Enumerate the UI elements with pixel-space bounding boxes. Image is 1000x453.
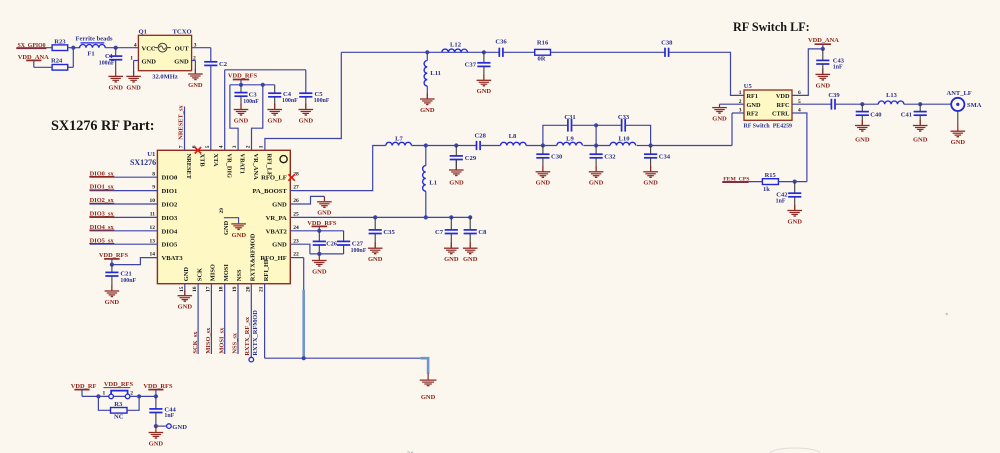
svg-text:VDD_RFS: VDD_RFS <box>104 381 134 388</box>
svg-text:4: 4 <box>134 42 137 48</box>
svg-text:13: 13 <box>150 238 156 244</box>
svg-text:1k: 1k <box>763 186 770 193</box>
svg-text:VBAT2: VBAT2 <box>266 228 288 235</box>
svg-text:GND: GND <box>477 88 492 95</box>
svg-text:1nF: 1nF <box>164 413 174 419</box>
svg-text:GND: GND <box>421 394 436 401</box>
svg-text:RXTX_RFMOD: RXTX_RFMOD <box>252 310 259 356</box>
svg-text:C34: C34 <box>659 154 671 161</box>
svg-text:NC: NC <box>114 414 124 421</box>
svg-text:C33: C33 <box>618 114 630 121</box>
svg-text:2: 2 <box>130 390 133 396</box>
svg-text:R23: R23 <box>54 38 66 45</box>
svg-text:GND: GND <box>126 84 141 91</box>
svg-text:C32: C32 <box>604 154 616 161</box>
svg-text:RFI_HF: RFI_HF <box>263 258 270 281</box>
svg-text:RFO_LF: RFO_LF <box>261 175 287 182</box>
svg-text:1: 1 <box>103 390 106 396</box>
svg-text:GND: GND <box>272 242 287 249</box>
svg-text:ANT_LF: ANT_LF <box>947 90 972 97</box>
svg-text:C38: C38 <box>661 39 673 46</box>
svg-text:L12: L12 <box>450 41 462 48</box>
svg-text:1: 1 <box>259 145 265 148</box>
svg-text:VR_DIG: VR_DIG <box>225 154 232 179</box>
svg-text:R15: R15 <box>765 172 777 179</box>
svg-text:16: 16 <box>192 286 198 292</box>
svg-text:GND: GND <box>142 58 157 65</box>
svg-text:GND: GND <box>149 440 164 447</box>
svg-text:100nF: 100nF <box>314 98 330 104</box>
svg-text:14: 14 <box>150 252 156 258</box>
svg-text:5: 5 <box>205 145 211 148</box>
svg-text:GND: GND <box>368 256 383 263</box>
svg-text:100nF: 100nF <box>120 278 136 284</box>
svg-text:21: 21 <box>259 286 265 292</box>
svg-text:NRESET: NRESET <box>185 154 192 180</box>
svg-text:PE4259: PE4259 <box>773 123 792 129</box>
svg-text:0R: 0R <box>538 56 546 63</box>
svg-text:17: 17 <box>205 286 211 292</box>
svg-text:VDD_ANA: VDD_ANA <box>808 37 839 44</box>
svg-text:MISO_sx: MISO_sx <box>205 327 212 354</box>
svg-text:MOSI: MOSI <box>223 264 230 282</box>
svg-text:12: 12 <box>150 225 156 231</box>
svg-text:VDD: VDD <box>776 93 790 100</box>
svg-text:GND: GND <box>232 232 247 239</box>
svg-text:GND: GND <box>183 267 190 282</box>
svg-text:2: 2 <box>193 55 196 61</box>
svg-text:4: 4 <box>219 145 225 148</box>
svg-text:NSS_sx: NSS_sx <box>232 332 239 353</box>
svg-text:23: 23 <box>293 238 299 244</box>
svg-text:GND: GND <box>188 82 203 89</box>
svg-text:L9: L9 <box>566 135 574 142</box>
svg-text:L1: L1 <box>429 179 437 186</box>
svg-text:DIO0: DIO0 <box>162 175 178 182</box>
svg-text:C39: C39 <box>828 92 840 99</box>
svg-text:GND: GND <box>712 116 727 123</box>
svg-text:1nF: 1nF <box>833 65 843 71</box>
svg-text:GND: GND <box>272 202 287 209</box>
svg-text:C1: C1 <box>105 53 113 60</box>
svg-text:DIO2: DIO2 <box>162 202 178 209</box>
svg-text:SCK: SCK <box>196 268 203 281</box>
svg-text:GND: GND <box>223 220 230 235</box>
svg-text:C28: C28 <box>475 133 487 140</box>
svg-text:DIO5: DIO5 <box>162 242 178 249</box>
svg-text:SMA: SMA <box>967 102 982 109</box>
svg-text:GND: GND <box>589 180 604 187</box>
svg-text:GND: GND <box>449 180 464 187</box>
svg-text:NRESET_sx: NRESET_sx <box>178 105 185 140</box>
svg-text:8: 8 <box>152 171 155 177</box>
svg-text:GND: GND <box>787 218 802 225</box>
svg-text:C7: C7 <box>435 229 444 236</box>
svg-text:VDD_RFS: VDD_RFS <box>228 73 258 80</box>
svg-text:GND: GND <box>816 82 831 89</box>
svg-text:RF Switch: RF Switch <box>744 123 771 129</box>
svg-text:25: 25 <box>293 212 299 218</box>
svg-text:15: 15 <box>179 286 185 292</box>
svg-text:GND: GND <box>174 58 189 65</box>
svg-text:C31: C31 <box>564 114 575 121</box>
svg-text:32.0MHz: 32.0MHz <box>152 74 178 81</box>
svg-text:C3: C3 <box>249 92 258 99</box>
svg-text:7: 7 <box>178 145 184 148</box>
svg-text:U5: U5 <box>744 83 753 90</box>
svg-text:RF2: RF2 <box>747 111 759 118</box>
svg-text:U1: U1 <box>147 151 155 158</box>
svg-text:C42: C42 <box>776 192 787 199</box>
svg-text:MISO: MISO <box>210 264 217 281</box>
svg-text:RFC: RFC <box>777 102 790 109</box>
svg-text:2: 2 <box>245 145 251 148</box>
svg-text:F1: F1 <box>87 50 94 57</box>
svg-text:XTA: XTA <box>212 154 219 167</box>
svg-text:XTB: XTB <box>199 154 206 168</box>
svg-text:100nF: 100nF <box>243 99 259 105</box>
svg-text:GND: GND <box>951 139 966 146</box>
svg-text:GND: GND <box>108 84 123 91</box>
svg-text:SCK_sx: SCK_sx <box>192 331 199 354</box>
svg-text:L13: L13 <box>886 92 898 99</box>
svg-text:L7: L7 <box>395 136 403 143</box>
svg-text:C36: C36 <box>495 39 507 46</box>
svg-text:R3: R3 <box>114 401 123 408</box>
svg-text:NSS: NSS <box>236 269 243 281</box>
svg-text:GND: GND <box>913 137 928 144</box>
svg-text:22: 22 <box>293 252 299 258</box>
svg-text:OUT: OUT <box>175 45 190 52</box>
svg-text:C21: C21 <box>120 271 131 278</box>
svg-text:20: 20 <box>245 286 251 292</box>
svg-text:R24: R24 <box>51 58 63 65</box>
svg-text:GND: GND <box>267 117 282 124</box>
svg-text:26: 26 <box>293 198 299 204</box>
svg-text:100nF: 100nF <box>282 98 298 104</box>
svg-text:9: 9 <box>152 185 155 191</box>
svg-text:11: 11 <box>150 212 155 218</box>
svg-text:GND: GND <box>317 209 332 216</box>
svg-text:GND: GND <box>312 268 327 275</box>
svg-text:C27: C27 <box>352 240 364 247</box>
svg-text:Ferrite beads: Ferrite beads <box>75 36 112 43</box>
svg-text:VCC: VCC <box>142 45 156 52</box>
svg-text:L11: L11 <box>430 70 441 77</box>
svg-text:27: 27 <box>293 185 299 191</box>
svg-text:DIO1: DIO1 <box>162 188 178 195</box>
svg-text:1nF: 1nF <box>776 199 786 205</box>
svg-text:18: 18 <box>219 286 225 292</box>
svg-text:GND: GND <box>299 117 314 124</box>
svg-text:RF Switch LF:: RF Switch LF: <box>733 20 810 34</box>
svg-text:L8: L8 <box>509 133 517 140</box>
svg-text:100nF: 100nF <box>99 60 115 66</box>
svg-text:C26: C26 <box>326 240 337 247</box>
svg-text:C43: C43 <box>833 57 845 64</box>
svg-text:DIO3: DIO3 <box>162 215 178 222</box>
svg-text:GND: GND <box>463 256 478 263</box>
svg-text:C40: C40 <box>870 111 881 118</box>
svg-text:MOSI_sx: MOSI_sx <box>218 327 225 354</box>
svg-text:VBAT1: VBAT1 <box>239 154 246 174</box>
svg-text:TCXO: TCXO <box>173 29 192 36</box>
svg-text:C8: C8 <box>478 229 487 236</box>
svg-text:3: 3 <box>232 145 238 148</box>
svg-text:100nF: 100nF <box>351 248 367 254</box>
svg-text:PA_BOOST: PA_BOOST <box>252 188 287 195</box>
svg-text:VBAT3: VBAT3 <box>162 255 184 262</box>
svg-text:1: 1 <box>130 55 133 61</box>
svg-text:RXTX&RFMOD: RXTX&RFMOD <box>250 233 257 281</box>
svg-text:GND: GND <box>105 299 120 306</box>
svg-text:GND: GND <box>536 180 551 187</box>
svg-text:RXTX_RF_sx: RXTX_RF_sx <box>244 316 251 356</box>
svg-text:GND: GND <box>444 256 459 263</box>
svg-text:R16: R16 <box>537 40 549 47</box>
svg-text:10: 10 <box>150 198 156 204</box>
svg-text:RF1: RF1 <box>747 93 759 100</box>
svg-text:GND: GND <box>172 424 187 431</box>
svg-text:SX1276: SX1276 <box>130 158 156 167</box>
svg-text:GND: GND <box>420 107 435 114</box>
svg-text:1: 1 <box>739 90 742 96</box>
svg-text:VDD_RFS: VDD_RFS <box>99 252 129 259</box>
svg-text:C35: C35 <box>383 229 395 236</box>
svg-text:C29: C29 <box>465 155 477 162</box>
svg-text:C2: C2 <box>219 61 228 68</box>
svg-text:VR_ANA: VR_ANA <box>252 154 259 181</box>
svg-text:C30: C30 <box>551 154 563 161</box>
svg-text:C37: C37 <box>465 61 477 68</box>
svg-text:GND: GND <box>234 117 249 124</box>
svg-text:GND: GND <box>855 137 870 144</box>
svg-text:VR_PA: VR_PA <box>266 215 287 222</box>
svg-text:L10: L10 <box>619 135 631 142</box>
svg-text:GND: GND <box>643 180 658 187</box>
svg-text:CTRL: CTRL <box>772 111 790 118</box>
svg-text:GND: GND <box>747 102 761 109</box>
svg-text:GND: GND <box>178 304 193 311</box>
svg-text:3: 3 <box>194 42 197 48</box>
svg-text:C41: C41 <box>901 111 912 118</box>
svg-text:19: 19 <box>232 286 238 292</box>
svg-text:Q1: Q1 <box>139 29 147 36</box>
svg-text:SX1276 RF Part:: SX1276 RF Part: <box>51 118 155 134</box>
svg-text:RFI_LF: RFI_LF <box>266 154 273 176</box>
svg-text:29: 29 <box>219 208 225 214</box>
svg-text:24: 24 <box>293 225 299 231</box>
svg-text:DIO4: DIO4 <box>162 228 178 235</box>
